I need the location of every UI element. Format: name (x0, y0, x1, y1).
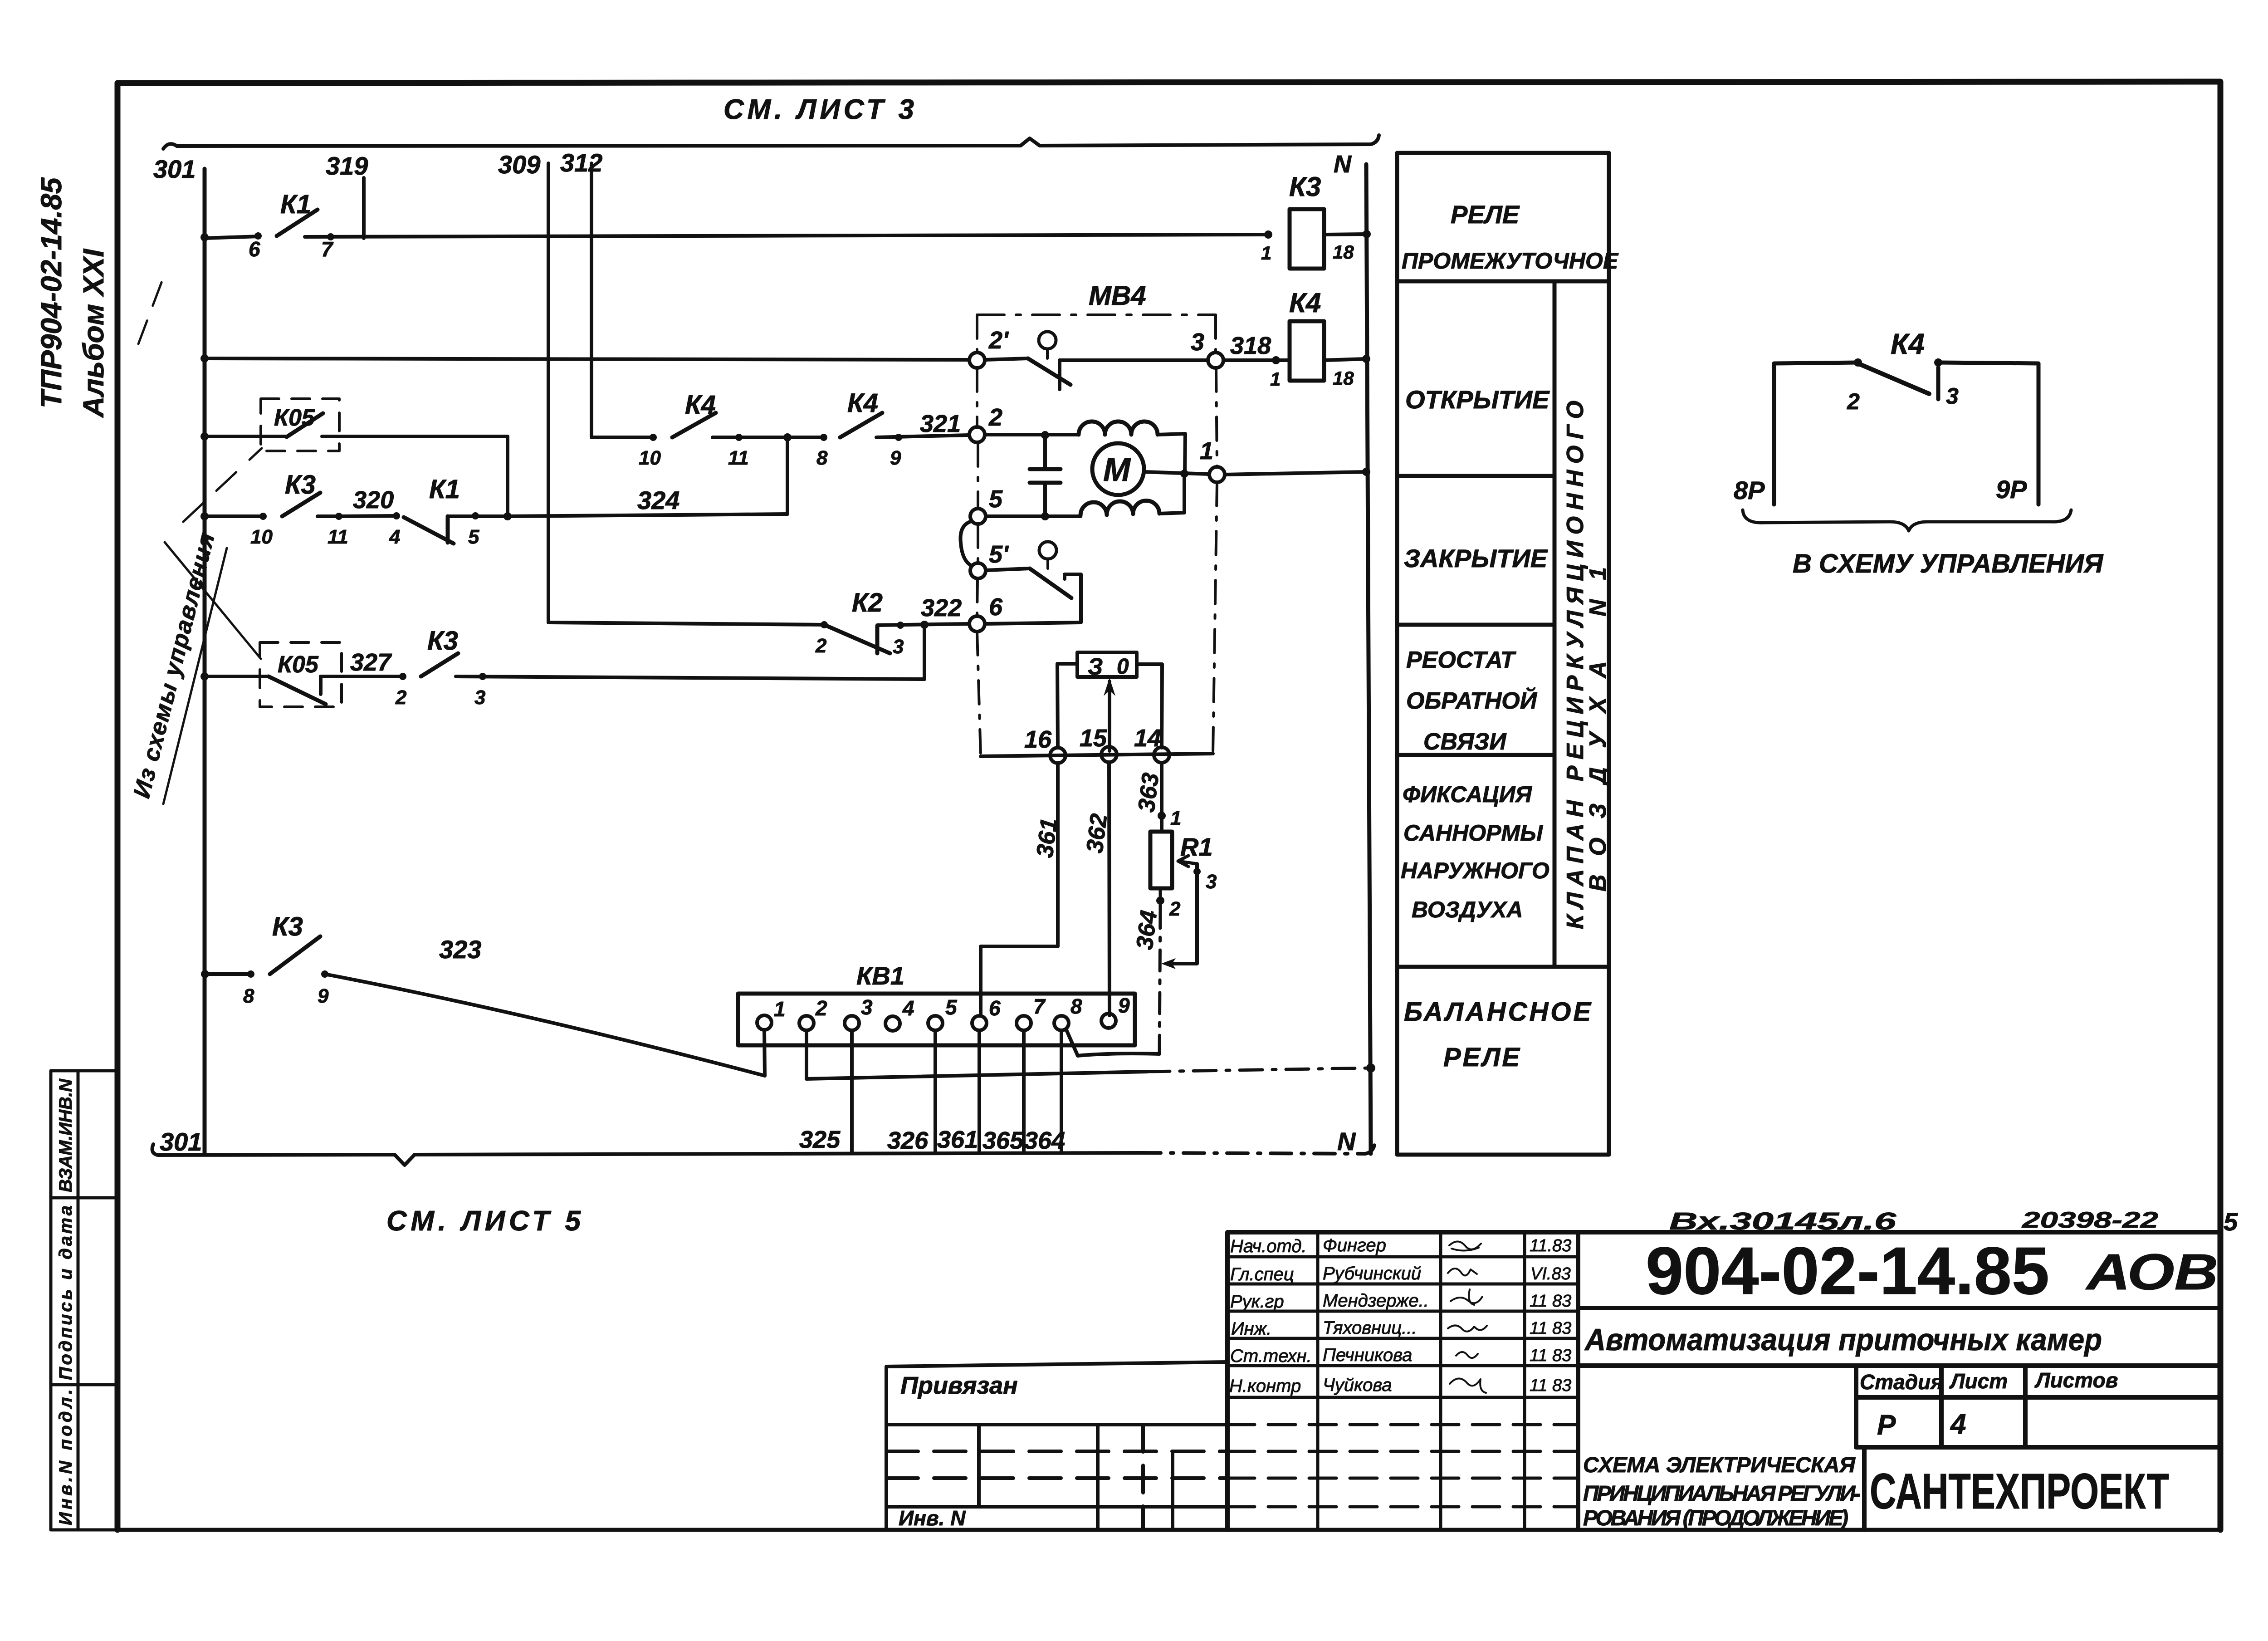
junction 301/rowB (200, 354, 209, 362)
svg-text:4: 4 (902, 996, 914, 1020)
svg-text:ЗАКРЫТИЕ: ЗАКРЫТИЕ (1404, 544, 1548, 573)
terminal 10 dot rowD (259, 513, 267, 520)
aux terminal 2 dot (1854, 358, 1862, 367)
wire rowC from 301 to K05 (205, 435, 287, 438)
KV1 terminal 1 (757, 1015, 772, 1030)
dashed box K05 upper (261, 399, 339, 451)
KV1 terminal 6 (972, 1016, 987, 1030)
svg-text:10: 10 (639, 447, 661, 469)
svg-text:11: 11 (728, 447, 749, 469)
svg-text:309: 309 (498, 150, 540, 179)
terminal 5 dot (472, 512, 479, 519)
svg-text:2': 2' (988, 327, 1009, 354)
junction R1 pin2 (1156, 896, 1164, 905)
svg-text:В СХЕМУ УПРАВЛЕНИЯ: В СХЕМУ УПРАВЛЕНИЯ (1793, 549, 2104, 578)
wire KV1-2 stub to N return (805, 1030, 808, 1079)
contact K05 blade (upper) (287, 413, 323, 437)
svg-text:8Р: 8Р (1734, 476, 1765, 505)
svg-text:Привязан: Привязан (900, 1372, 1018, 1399)
contact K1 blade (277, 210, 318, 236)
svg-text:Лист: Лист (1949, 1369, 2008, 1393)
wire rowG right + riser to K2 row (456, 625, 924, 679)
svg-text:364: 364 (1131, 909, 1162, 951)
svg-text:Листов: Листов (2034, 1368, 2118, 1392)
wire 324 riser up (786, 437, 789, 514)
wire winding to junction riser (1159, 474, 1184, 514)
junction 301/rowA (200, 233, 209, 241)
svg-text:Н.контр: Н.контр (1229, 1376, 1301, 1396)
limit switch lower blade (1030, 568, 1071, 598)
svg-text:Стадия: Стадия (1860, 1370, 1943, 1394)
wire rowE 9 to node2 (876, 435, 969, 437)
limit switch lower actuator circle (1039, 542, 1056, 559)
node 3 (1208, 353, 1223, 368)
setpoint right lead (1137, 664, 1162, 748)
svg-text:К1: К1 (280, 190, 311, 219)
svg-text:2: 2 (815, 996, 827, 1020)
svg-text:322: 322 (921, 594, 962, 622)
svg-text:3: 3 (861, 995, 873, 1019)
svg-text:321: 321 (920, 410, 961, 437)
capacitor plates (1030, 469, 1061, 483)
svg-text:11 83: 11 83 (1530, 1376, 1571, 1395)
svg-text:N: N (1337, 1127, 1356, 1156)
wire motor to node1 (1144, 472, 1209, 474)
svg-text:ОТКРЫТИЕ: ОТКРЫТИЕ (1405, 385, 1550, 414)
svg-text:Чуйкова: Чуйкова (1323, 1375, 1392, 1395)
svg-text:1: 1 (1261, 242, 1271, 264)
wire 365 KV1-7 to bus (1022, 1030, 1026, 1153)
signature rows: names (1323, 1235, 1429, 1395)
KV1 terminal 2 (799, 1016, 814, 1030)
terminal 3 dot R1 (1193, 868, 1201, 875)
node line 16-15-14 (981, 754, 1213, 756)
motor bottom winding (1080, 501, 1159, 516)
node 1 (1209, 467, 1225, 482)
wire 312 vertical (591, 163, 653, 437)
terminal 3 dot rowG (479, 673, 486, 680)
svg-text:312: 312 (560, 148, 602, 177)
svg-text:VI.83: VI.83 (1530, 1264, 1571, 1283)
dashed box K05 lower (260, 642, 342, 707)
svg-text:К1: К1 (429, 475, 460, 504)
svg-text:К2: К2 (852, 588, 883, 617)
svg-text:8: 8 (243, 985, 254, 1007)
wire rowA right to K3 coil (305, 235, 1268, 237)
svg-text:2: 2 (815, 635, 827, 657)
wire 364 dash-dot from R1 (1159, 888, 1160, 1054)
KV1 terminal 9 (1101, 1014, 1116, 1028)
wire rowE 10-11 (713, 436, 824, 439)
svg-text:9: 9 (1118, 994, 1130, 1017)
capacitor lead bottom (1043, 483, 1047, 516)
bus 301 vertical wire (203, 169, 207, 1155)
svg-text:324: 324 (637, 486, 679, 514)
svg-text:НАРУЖНОГО: НАРУЖНОГО (1401, 858, 1549, 883)
svg-text:К3: К3 (1289, 171, 1321, 202)
svg-text:18: 18 (1333, 241, 1354, 263)
svg-text:6: 6 (249, 237, 260, 261)
svg-text:319: 319 (326, 152, 368, 180)
junction rowA coil (1264, 230, 1272, 239)
bottom bus wire (see sheet 5) (152, 1144, 1140, 1165)
title block outer (1227, 1232, 2220, 1530)
svg-text:К4: К4 (1891, 328, 1925, 360)
wire rowC step down (506, 436, 509, 516)
svg-text:К05: К05 (278, 652, 319, 678)
svg-text:3: 3 (1206, 871, 1217, 893)
svg-text:11: 11 (327, 526, 348, 548)
svg-text:N: N (1334, 151, 1352, 178)
wire rowC right (322, 435, 508, 438)
svg-text:5: 5 (468, 526, 479, 548)
junction N rowB (1362, 355, 1370, 363)
svg-text:14: 14 (1134, 725, 1161, 752)
junction R1 pin1 (1158, 812, 1166, 820)
wire rowA left (205, 236, 258, 238)
svg-text:364: 364 (1024, 1127, 1065, 1154)
wire rowD to 324 riser (508, 514, 787, 516)
contact K4b blade (840, 413, 882, 437)
contact K05 blade (lower) (269, 676, 326, 704)
svg-text:1: 1 (1270, 368, 1281, 390)
wire node3 to K4 coil (1223, 358, 1290, 362)
svg-text:К3: К3 (285, 470, 316, 500)
svg-text:САННОРМЫ: САННОРМЫ (1403, 820, 1543, 846)
svg-text:ВЗАМ.ИНВ.N: ВЗАМ.ИНВ.N (56, 1078, 76, 1192)
svg-text:2: 2 (988, 404, 1002, 431)
svg-text:Печникова: Печникова (1323, 1345, 1412, 1365)
signature rows: dates (1530, 1236, 1571, 1395)
junction N rowA (1363, 230, 1371, 238)
terminal 2 dot K2 (821, 621, 828, 628)
aux contact K4 right lead 9P (1938, 362, 2038, 505)
wire K2 3 to node6 (877, 624, 969, 625)
aux stop bracket (1936, 367, 1941, 399)
KV1 terminal 3 (845, 1016, 859, 1030)
svg-text:365: 365 (982, 1127, 1024, 1154)
svg-text:6: 6 (989, 593, 1003, 621)
terminal 11 dot rowE (735, 434, 743, 441)
svg-text:СВЯЗИ: СВЯЗИ (1423, 729, 1507, 755)
wire KV1-1 stub to 323 (764, 1030, 765, 1076)
motor top winding (1079, 421, 1158, 435)
svg-text:11.83: 11.83 (1530, 1236, 1571, 1255)
wire 323 (325, 974, 765, 1076)
svg-text:Альбом XXI: Альбом XXI (77, 249, 110, 418)
terminal 9 dot rowH (321, 970, 328, 978)
svg-text:9Р: 9Р (1996, 475, 2027, 504)
privyazan table (886, 1362, 1227, 1530)
junction 324/rowE (783, 433, 792, 441)
limit switch lower actuator stem (1046, 559, 1049, 568)
svg-text:2: 2 (395, 686, 407, 709)
svg-text:Нач.отд.: Нач.отд. (1230, 1236, 1307, 1256)
svg-text:К3: К3 (272, 912, 303, 941)
svg-text:4: 4 (1950, 1409, 1966, 1440)
MB4 dashed enclosure top (977, 314, 1216, 316)
terminal 11 dot (335, 513, 342, 520)
leader short dash upper (138, 278, 163, 344)
limit switch upper blade (1028, 358, 1070, 385)
svg-text:7: 7 (1033, 994, 1046, 1018)
svg-text:4: 4 (389, 526, 400, 548)
svg-text:РЕЛЕ: РЕЛЕ (1443, 1043, 1520, 1072)
node 5' (970, 563, 986, 578)
junction capacitor top (1041, 431, 1049, 439)
wire switch to node6 riser (985, 574, 1081, 624)
jumper 5 to 5' (960, 521, 972, 566)
R1 wiper loop (1167, 864, 1197, 964)
contact K1 6-7 terminal 6 (254, 232, 262, 240)
svg-text:318: 318 (1230, 332, 1271, 359)
node 5 (970, 509, 986, 524)
svg-text:8: 8 (1070, 994, 1082, 1018)
wire 309 vertical (548, 163, 824, 625)
svg-text:К4: К4 (685, 390, 716, 420)
terminal block KV1 box (738, 994, 1135, 1045)
svg-text:323: 323 (439, 935, 481, 964)
node 15 (1101, 747, 1117, 762)
svg-text:327: 327 (350, 649, 392, 676)
KV1 terminal 7 (1017, 1016, 1031, 1030)
svg-text:6: 6 (989, 996, 1001, 1020)
limit switch upper actuator stem (1046, 349, 1049, 358)
aux contact K4 left lead 8P (1774, 362, 1858, 505)
contact K4a blade (672, 413, 716, 437)
svg-text:З: З (1088, 654, 1103, 680)
svg-text:РЕОСТАТ: РЕОСТАТ (1406, 647, 1516, 673)
svg-text:К4: К4 (847, 388, 878, 418)
node 2 (969, 427, 985, 442)
setpoint wiper arrow (1108, 681, 1111, 751)
wire N return dash-dot (1147, 1068, 1371, 1072)
terminal 8 dot rowE (820, 434, 827, 441)
contact K05 lower stop (319, 676, 323, 694)
svg-text:ПРИНЦИПИАЛЬНАЯ РЕГУЛИ-: ПРИНЦИПИАЛЬНАЯ РЕГУЛИ- (1583, 1482, 1861, 1506)
junction N return (1366, 1063, 1375, 1073)
contact K3 blade rowG (421, 653, 458, 676)
svg-text:Рубчинский: Рубчинский (1323, 1264, 1421, 1283)
svg-text:18: 18 (1333, 367, 1354, 389)
svg-text:СХЕМА ЭЛЕКТРИЧЕСКАЯ: СХЕМА ЭЛЕКТРИЧЕСКАЯ (1583, 1453, 1856, 1477)
svg-text:ФИКСАЦИЯ: ФИКСАЦИЯ (1403, 782, 1532, 807)
junction N node1 row (1362, 468, 1370, 476)
svg-text:362: 362 (1081, 812, 1112, 854)
leader to lower K05 (165, 542, 261, 659)
svg-text:320: 320 (353, 486, 394, 514)
svg-text:ТПР904-02-14.85: ТПР904-02-14.85 (35, 177, 68, 408)
svg-text:Рук.гр: Рук.гр (1230, 1292, 1284, 1312)
node 2' (969, 353, 985, 368)
setpoint box Z-0 (1077, 652, 1137, 677)
aux terminal 3 dot (1934, 358, 1942, 367)
junction 301/rowH (201, 970, 209, 978)
label column frame (1397, 153, 1609, 1155)
svg-text:325: 325 (799, 1126, 841, 1153)
svg-text:16: 16 (1024, 726, 1052, 753)
svg-text:3: 3 (474, 686, 485, 709)
wire rowG from 301 (205, 675, 269, 678)
node 16 (1050, 748, 1066, 763)
node 6 (969, 616, 985, 632)
svg-text:1: 1 (1200, 437, 1213, 465)
aux contact K4 blade (1858, 363, 1929, 394)
svg-text:0: 0 (1117, 655, 1129, 679)
limit switch lower fixed hook (1065, 574, 1081, 579)
wire KV1-8 diagonal to 364 dash line (1066, 1029, 1159, 1056)
contact K3 blade rowH (270, 936, 320, 974)
svg-text:КВ1: КВ1 (856, 961, 904, 990)
svg-text:Автоматизация приточных каме: Автоматизация приточных камер (1584, 1323, 2102, 1357)
wire 363 from node14 (1160, 763, 1163, 832)
wire 319 vertical (362, 178, 366, 238)
svg-text:РОВАНИЯ (ПРОДОЛЖЕНИЕ): РОВАНИЯ (ПРОДОЛЖЕНИЕ) (1583, 1506, 1848, 1530)
wire rowG mid (321, 675, 403, 678)
svg-text:Мендзерже..: Мендзерже.. (1323, 1291, 1429, 1311)
svg-text:Инж.: Инж. (1231, 1319, 1271, 1339)
KV1 terminal 4 (885, 1016, 900, 1031)
svg-text:РЕЛЕ: РЕЛЕ (1451, 200, 1520, 229)
limit switch upper: wire from 2' (985, 358, 1028, 360)
wire rowH from 301 (205, 972, 251, 976)
limit switch lower: wire from 5' (986, 568, 1030, 570)
svg-text:ВОЗДУХА: ВОЗДУХА (1412, 897, 1523, 922)
resistor R1 (1150, 832, 1172, 888)
KV1 terminal 8 (1054, 1016, 1069, 1030)
svg-text:1: 1 (1170, 807, 1181, 829)
svg-text:11 83: 11 83 (1530, 1292, 1571, 1311)
svg-text:2: 2 (1169, 898, 1181, 920)
wire 361 KV1-6 to bus (978, 1030, 981, 1153)
svg-text:326: 326 (887, 1127, 929, 1154)
svg-text:Инв. N: Инв. N (899, 1506, 966, 1530)
svg-text:САНТЕХПРОЕКТ: САНТЕХПРОЕКТ (1870, 1464, 2169, 1519)
left attribute column box (51, 1071, 116, 1530)
contact K1 NC blade rowD (404, 517, 454, 544)
svg-text:К05: К05 (274, 405, 315, 431)
wire winding to corner (1158, 434, 1185, 474)
svg-text:МВ4: МВ4 (1089, 280, 1146, 311)
terminal 4 dot (393, 512, 400, 519)
svg-text:363: 363 (1133, 771, 1164, 813)
svg-text:5: 5 (2224, 1207, 2238, 1236)
svg-text:9: 9 (890, 447, 901, 469)
svg-text:904-02-14.85: 904-02-14.85 (1646, 1234, 2049, 1308)
contact K2 NC blade (824, 625, 890, 653)
wire 326 KV1-5 to bus (934, 1030, 937, 1153)
svg-text:К3: К3 (427, 626, 458, 656)
svg-text:3: 3 (1191, 328, 1204, 356)
svg-text:8: 8 (816, 447, 828, 469)
contact K3 blade rowD (282, 493, 320, 516)
junction motor right (1180, 470, 1188, 478)
svg-text:7: 7 (321, 237, 334, 261)
wire 362 from node15 (1109, 762, 1110, 1015)
svg-text:Ст.техн.: Ст.техн. (1230, 1346, 1312, 1366)
svg-text:Р: Р (1877, 1410, 1896, 1441)
terminal 2 dot rowG (399, 673, 406, 680)
svg-text:1: 1 (774, 997, 786, 1021)
svg-text:БАЛАНСНОЕ: БАЛАНСНОЕ (1404, 997, 1592, 1027)
svg-text:Гл.спец: Гл.спец (1230, 1264, 1294, 1284)
signature rows: roles (1229, 1236, 1312, 1396)
R1 wiper arrow (1178, 856, 1197, 867)
wire 325 KV1-3 to bus (850, 1030, 854, 1153)
svg-text:Фингер: Фингер (1323, 1235, 1386, 1255)
svg-text:Вх.30145л.6: Вх.30145л.6 (1669, 1208, 1897, 1235)
svg-text:Тяховниц...: Тяховниц... (1323, 1318, 1417, 1338)
leader to upper K05 (dashed) (183, 448, 262, 522)
motor M circle (1092, 443, 1144, 495)
terminal 10 dot rowE (650, 434, 657, 441)
svg-text:3: 3 (1946, 383, 1959, 409)
svg-text:М: М (1103, 452, 1131, 488)
svg-text:АОВ: АОВ (2085, 1244, 2218, 1300)
annotation underline (163, 548, 227, 804)
svg-text:ОБРАТНОЙ: ОБРАТНОЙ (1406, 687, 1538, 714)
KV1 terminal 5 (928, 1016, 943, 1030)
junction 301/rowG (200, 672, 209, 681)
junction 301/rowC (200, 432, 209, 441)
signature squiggles (1448, 1241, 1487, 1393)
junction 318/coil (1272, 356, 1280, 364)
wire coil K3 to N (1324, 234, 1367, 235)
terminal 7 dot (327, 233, 334, 240)
svg-text:Подпись и дата: Подпись и дата (56, 1205, 76, 1380)
wire 10-11 (318, 514, 339, 518)
setpoint wiper arrowhead (1104, 678, 1115, 696)
MB4 dashed left border (977, 315, 981, 756)
MB4 dashed right border (1213, 315, 1217, 754)
relay coil K4 (1290, 321, 1324, 381)
svg-text:3: 3 (893, 636, 904, 658)
svg-text:10: 10 (250, 526, 273, 548)
svg-text:361: 361 (1031, 817, 1062, 859)
svg-text:ПРОМЕЖУТОЧНОЕ: ПРОМЕЖУТОЧНОЕ (1402, 248, 1619, 274)
wire node5 to winding (986, 514, 1080, 518)
svg-text:11 83: 11 83 (1530, 1346, 1571, 1365)
top bus wire (see sheet 3) (163, 135, 1379, 149)
wire 11-4 (339, 516, 396, 516)
limit switch upper actuator circle (1039, 332, 1056, 349)
terminal 8 dot rowH (247, 970, 254, 978)
svg-text:2: 2 (1847, 389, 1860, 414)
svg-text:9: 9 (318, 985, 329, 1007)
wire node1 to N (1225, 472, 1366, 475)
limit switch upper fixed stub (1058, 360, 1061, 389)
wire rowB from 301 to node 2' (205, 358, 969, 360)
svg-text:15: 15 (1080, 725, 1107, 752)
contact K1 NC stop bracket (446, 516, 450, 543)
wire node2 to winding (985, 433, 1079, 436)
junction rowG riser / K2 row (920, 621, 929, 629)
junction rowC/rowD riser (503, 512, 512, 520)
R1 wiper loop arrowhead (1161, 958, 1176, 969)
svg-text:20398-22: 20398-22 (2022, 1207, 2159, 1233)
svg-text:11 83: 11 83 (1530, 1319, 1571, 1338)
svg-text:5': 5' (989, 541, 1009, 568)
svg-text:301: 301 (160, 1127, 202, 1156)
bottom bus dash-dot segment to N (1140, 1145, 1374, 1154)
svg-text:361: 361 (937, 1126, 978, 1153)
underbrace to control circuit (1743, 510, 2071, 531)
svg-text:5: 5 (989, 485, 1003, 513)
setpoint left lead (1057, 664, 1077, 748)
contact K2 NC stop (875, 626, 880, 653)
wire rowD from 301 (205, 514, 263, 518)
wire 2'sw to node 3 (1060, 358, 1208, 362)
